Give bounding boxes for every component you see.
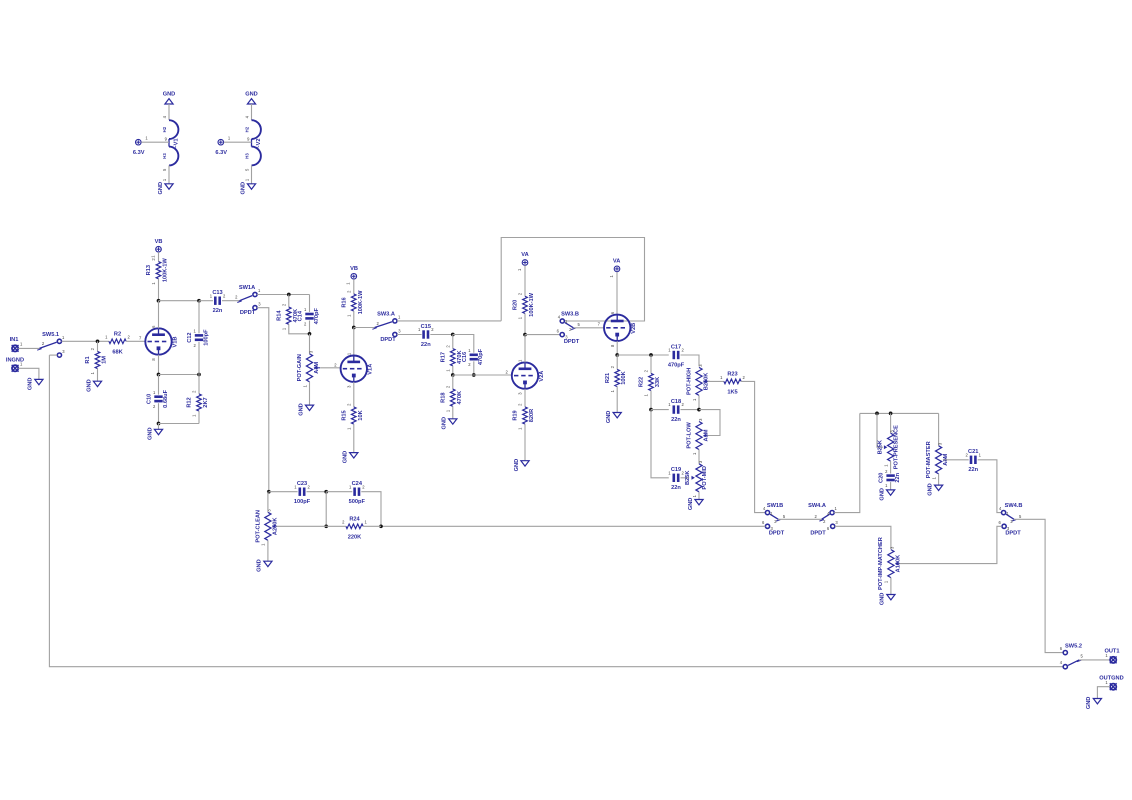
triode V1B (139, 325, 178, 361)
svg-text:22n: 22n (213, 308, 223, 314)
capacitor C13 (210, 290, 226, 314)
wire node to C13 (199, 300, 213, 302)
svg-text:IN1: IN1 (10, 337, 19, 343)
capacitor C12 (187, 329, 209, 348)
svg-text:470pF: 470pF (314, 307, 320, 324)
connector IN1 (10, 337, 23, 352)
wire R2 to V1B grid (126, 340, 145, 342)
svg-text:10K: 10K (358, 409, 364, 420)
wire V2A plate (524, 335, 526, 363)
wire presence pot top (890, 413, 892, 433)
svg-text:GND: GND (927, 483, 933, 496)
svg-text:220K: 220K (348, 535, 362, 541)
wire plate node to SW3.A (354, 327, 375, 329)
ground below V2 (240, 182, 255, 195)
resistor R13 (146, 258, 168, 285)
wire C15 to grid node (430, 334, 453, 336)
switch SW1B (762, 503, 786, 536)
resistor R12 (187, 390, 209, 417)
power symbol VB at R13 (150, 239, 162, 258)
wire POT-CLEAN top (267, 492, 269, 513)
svg-text:R16: R16 (341, 297, 347, 307)
svg-text:100K: 100K (621, 370, 627, 384)
svg-text:R18: R18 (440, 393, 446, 403)
wire SW3.B common to V2B grid (573, 327, 604, 329)
wire R16 to plate node (353, 311, 355, 327)
svg-text:R12: R12 (187, 397, 193, 407)
svg-text:R1: R1 (85, 356, 91, 363)
resistor R24 (342, 517, 367, 541)
wire clean channel long wire (381, 525, 765, 527)
capacitor C17 (668, 344, 685, 368)
switch SW4.B (999, 503, 1023, 536)
svg-text:DPDT: DPDT (769, 531, 785, 537)
ground at OUTGND (1086, 697, 1101, 710)
junction gain pot top node (308, 332, 312, 336)
wire C24 right (361, 492, 381, 527)
wire VB to R16 (353, 279, 355, 294)
wire plate node to C12 (159, 300, 200, 302)
wire R13 to plate node (158, 279, 160, 301)
potentiometer POT-GAIN (297, 350, 320, 387)
svg-text:SW3.B: SW3.B (561, 312, 579, 318)
wire C12 column (198, 301, 200, 334)
junction R17 top node (451, 333, 455, 337)
svg-text:22n: 22n (421, 342, 431, 348)
wire C24 wires (326, 491, 352, 493)
svg-text:GND: GND (514, 459, 520, 472)
switch SW4.A (808, 503, 838, 536)
ground at POT-MASTER (927, 483, 942, 496)
svg-text:C23: C23 (297, 481, 307, 487)
wire 6.3V to V2 (224, 141, 252, 143)
svg-text:470K: 470K (457, 390, 463, 404)
wire OUTGND to ground (1097, 687, 1110, 699)
svg-text:C24: C24 (352, 481, 363, 487)
wire POT-HIGH wiper to R23 (708, 380, 724, 382)
svg-text:R19: R19 (513, 410, 519, 420)
svg-text:V1A: V1A (368, 364, 374, 375)
ground below V1 (158, 182, 173, 195)
svg-text:1K5: 1K5 (727, 390, 737, 396)
wire VB to R13 (158, 252, 160, 262)
junction bypass gnd node (157, 422, 161, 426)
wire SW5.1 pin1 to R2 (62, 340, 109, 342)
svg-text:100K-1W: 100K-1W (358, 290, 364, 315)
svg-text:GND: GND (245, 91, 258, 97)
wiper arrow POT-PRESENCE (884, 445, 887, 449)
potentiometer POT-HIGH (686, 364, 709, 401)
svg-text:A1M: A1M (314, 362, 320, 374)
svg-text:A1M: A1M (704, 429, 710, 441)
junction R14 top node (287, 293, 291, 297)
junction cathode node right (197, 373, 201, 377)
svg-text:DPDT: DPDT (380, 337, 396, 343)
resistor R20 (513, 292, 535, 319)
wire V2A cathode (524, 389, 526, 407)
svg-text:POT-GAIN: POT-GAIN (297, 354, 303, 381)
ground at POT-GAIN (298, 403, 313, 416)
potentiometer POT-PRESENCE (877, 425, 899, 469)
wire 6.3V to V1 (141, 141, 169, 143)
wire C17 to POT-HIGH (681, 355, 700, 366)
junction C18 left node (649, 408, 653, 412)
svg-text:C21: C21 (968, 449, 978, 455)
wire R24 wires right (363, 525, 381, 527)
wire SW5.2 to OUT1 (1079, 659, 1110, 661)
power symbol 6.3V for V2 (215, 139, 227, 156)
junction V2A grid node left (451, 373, 455, 377)
wire R18 bottom (452, 406, 454, 418)
wire SW4.A pin3 to POT-IMP (835, 526, 891, 549)
power symbol VA at V2B (609, 259, 621, 278)
wire C14 bottom (309, 321, 311, 334)
resistor R15 (341, 403, 363, 430)
svg-text:R2: R2 (114, 332, 121, 338)
wire C19 column (651, 410, 669, 478)
junction C23-C24 node (324, 490, 328, 494)
wire R18 top (452, 375, 454, 389)
svg-text:SW5.1: SW5.1 (42, 332, 59, 338)
svg-text:B25K: B25K (685, 470, 691, 485)
svg-text:~V1: ~V1 (174, 138, 180, 148)
resistor R23 (720, 372, 745, 396)
svg-text:H3: H3 (245, 153, 250, 159)
svg-text:DPDT: DPDT (810, 531, 826, 537)
wire R12 bottom (198, 411, 200, 423)
svg-text:C10: C10 (147, 394, 153, 404)
junction C12 top node (197, 299, 201, 303)
svg-text:C17: C17 (671, 344, 681, 350)
resistor R22 (639, 369, 661, 396)
wire R17 node to C16 (453, 335, 474, 353)
junction R22 top node (649, 353, 653, 357)
svg-text:VB: VB (155, 239, 163, 245)
svg-text:VB: VB (350, 266, 358, 272)
svg-text:GND: GND (163, 91, 176, 97)
wire SW4.A pin1 up (834, 413, 860, 512)
svg-text:0.68uF: 0.68uF (163, 389, 169, 407)
junction cathode node left (157, 373, 161, 377)
resistor R16 (341, 290, 363, 317)
svg-text:GND: GND (257, 559, 263, 572)
ground at R19 (514, 459, 529, 472)
svg-text:100pF: 100pF (203, 329, 209, 346)
svg-text:~V2: ~V2 (256, 138, 262, 148)
wire presence pot to C20 (890, 461, 892, 473)
junction V1B plate node (157, 299, 161, 303)
wire VA to V2B plate (616, 272, 618, 315)
wire R21 top (616, 355, 618, 369)
junction clean top node (267, 490, 271, 494)
svg-text:C12: C12 (187, 332, 193, 342)
ground at R1 (86, 379, 101, 392)
junction R1 tap (96, 339, 100, 343)
connector OUT1 (1104, 649, 1119, 664)
svg-text:C16: C16 (462, 352, 468, 362)
capacitor C15 (418, 324, 434, 348)
svg-text:470pF: 470pF (478, 348, 484, 365)
wire R14 column top (288, 295, 290, 308)
svg-text:H2: H2 (245, 126, 250, 132)
svg-text:R20: R20 (513, 300, 519, 310)
resistor R2 (105, 332, 130, 356)
ground at INGND (28, 378, 43, 391)
svg-text:R17: R17 (440, 352, 446, 362)
wire C20 to gnd (890, 482, 892, 490)
svg-text:R13: R13 (146, 265, 152, 275)
switch SW5.1 (37, 332, 65, 357)
wire SW3.A pin3 to C15 (397, 334, 422, 336)
wire POT-LOW wiper loop (699, 410, 720, 436)
power symbol VA at R20 (517, 252, 529, 271)
svg-text:SW5.2: SW5.2 (1065, 644, 1082, 650)
svg-text:V1B: V1B (172, 337, 178, 348)
junction presence top node (889, 412, 893, 416)
wire V2B cathode (616, 341, 618, 355)
wire R17 bottom (452, 366, 454, 375)
svg-text:GND: GND (442, 417, 448, 430)
svg-text:OUTGND: OUTGND (1099, 675, 1123, 681)
ground at R15 (343, 451, 358, 464)
svg-text:SW4.B: SW4.B (1005, 503, 1023, 509)
junction R24 left node (324, 524, 328, 528)
svg-text:33K: 33K (655, 376, 661, 387)
wire R22 bottom (650, 391, 652, 410)
junction V2A plate node (523, 333, 527, 337)
svg-text:820R: 820R (529, 409, 535, 423)
svg-text:VA: VA (613, 259, 620, 265)
svg-text:C20: C20 (879, 473, 885, 483)
svg-text:470pF: 470pF (668, 362, 685, 368)
svg-text:68K: 68K (112, 350, 123, 356)
svg-text:VA: VA (521, 252, 528, 258)
junction R24 right node (379, 524, 383, 528)
svg-text:R24: R24 (349, 517, 360, 523)
svg-text:H2: H2 (162, 126, 167, 132)
wire POT-CLEAN wiper row (277, 525, 327, 527)
svg-text:SW1B: SW1B (767, 503, 783, 509)
wire plate node to SW3.B pin6 (525, 334, 560, 336)
potentiometer POT-LOW (686, 418, 709, 455)
potentiometer POT-MID (685, 460, 708, 497)
resistor R19 (513, 403, 535, 430)
svg-text:GND: GND (879, 488, 885, 501)
triode V2A (505, 359, 544, 395)
wire VA to R20 (524, 265, 526, 296)
potentiometer POT-CLEAN (255, 509, 278, 546)
wire R23 to SW1B (741, 381, 765, 512)
connector INGND (6, 358, 24, 372)
svg-text:POT-MASTER: POT-MASTER (926, 441, 932, 478)
wire master wiper to C21 (943, 459, 969, 461)
junction C18 right node (697, 408, 701, 412)
wire cathode to tone stack (617, 354, 669, 356)
svg-text:22n: 22n (895, 472, 901, 482)
ground at R21 (606, 411, 621, 424)
svg-text:POT-LOW: POT-LOW (686, 422, 692, 449)
svg-text:C19: C19 (671, 467, 681, 473)
svg-text:GND: GND (240, 182, 246, 195)
wire V1 top gnd (168, 104, 170, 120)
wire feedback run SW5.1 to SW5.2 (49, 355, 1063, 667)
wire R20 to plate node (524, 314, 526, 335)
ground at POT-IMP-MATCHER (880, 593, 895, 606)
wire C23 to C24 (307, 491, 327, 493)
capacitor C16 (462, 348, 484, 367)
triode V1A (334, 352, 373, 388)
svg-text:GND: GND (606, 411, 612, 424)
wire C12 bottom (198, 342, 200, 375)
wire SW1B-SW4A common (778, 518, 821, 520)
svg-text:DPDT: DPDT (564, 339, 580, 345)
wire V2 bottom gnd (251, 165, 253, 183)
wire POT-LOW to POT-MID (698, 450, 700, 464)
svg-text:SW3.A: SW3.A (377, 311, 395, 317)
capacitor C14 (298, 307, 320, 326)
junction cathode follower node (615, 353, 619, 357)
svg-text:POT-MID: POT-MID (702, 466, 708, 490)
svg-text:B25K: B25K (877, 439, 883, 454)
wire R1 top (97, 341, 99, 351)
wire clean row left (269, 491, 298, 493)
capacitor C20 (879, 469, 901, 488)
capacitor C23 (294, 481, 311, 505)
svg-text:6.3V: 6.3V (133, 150, 145, 156)
switch SW3.B (557, 312, 581, 345)
capacitor C19 (668, 467, 684, 491)
wire POT-MID bottom (698, 492, 700, 500)
svg-text:A100K: A100K (896, 554, 902, 572)
wire presence wiper drop (877, 413, 883, 447)
svg-text:V2A: V2A (539, 371, 545, 382)
junction presence wiper node (875, 412, 879, 416)
svg-text:GND: GND (343, 451, 349, 464)
wire SW5.1 pin3 stub (49, 354, 57, 356)
wire C13 to SW1A (222, 300, 240, 302)
svg-text:R15: R15 (341, 410, 347, 420)
wire INGND to ground (18, 368, 39, 379)
wire grid node to V2A (453, 374, 512, 376)
wire SW1A pin1 out (257, 294, 309, 296)
svg-text:GND: GND (28, 378, 34, 391)
wire V1B cathode (158, 355, 160, 375)
wire SW4.B common down (1014, 519, 1063, 652)
svg-text:GND: GND (86, 379, 92, 392)
wire C10 top (158, 375, 160, 395)
svg-text:SW4.A: SW4.A (808, 503, 826, 509)
resistor R21 (605, 365, 627, 392)
wire SW3.A pin1 to loop (397, 320, 501, 322)
svg-text:SW1A: SW1A (239, 285, 255, 291)
switch SW1A (235, 285, 261, 316)
wire C21 to SW4.B (978, 460, 1002, 513)
svg-text:POT-HIGH: POT-HIGH (686, 368, 692, 395)
svg-text:GND: GND (158, 182, 164, 195)
svg-text:C13: C13 (212, 290, 222, 296)
wire V2 top gnd (251, 104, 253, 120)
wire POT-HIGH bottom (698, 395, 700, 409)
svg-text:GND: GND (298, 403, 304, 416)
svg-text:H3: H3 (162, 153, 167, 159)
connector OUTGND (1099, 675, 1123, 690)
svg-text:DPDT: DPDT (240, 310, 256, 316)
wire POT-GAIN wiper to V1A grid (320, 367, 341, 369)
svg-text:500pF: 500pF (349, 499, 366, 505)
ground at R18 (442, 417, 457, 430)
svg-text:22n: 22n (968, 467, 978, 473)
wire V1A plate (353, 328, 355, 356)
wire POT-IMP bottom (890, 578, 892, 595)
junction V2A grid node right (472, 373, 476, 377)
svg-text:6.3V: 6.3V (215, 150, 227, 156)
svg-text:2K7: 2K7 (203, 397, 209, 407)
wire R19 bottom (524, 424, 526, 460)
svg-text:C15: C15 (421, 324, 431, 330)
svg-text:C14: C14 (298, 310, 304, 321)
junction V1A plate node (352, 326, 356, 330)
wire master pot bottom (938, 474, 940, 485)
capacitor C10 (147, 389, 169, 409)
svg-text:100K-1W: 100K-1W (529, 292, 535, 317)
ground at POT-MID (688, 498, 703, 511)
svg-text:R21: R21 (605, 373, 611, 383)
switch SW3.A (372, 311, 401, 343)
wire POT-GAIN bottom (309, 382, 311, 405)
resistor R17 (440, 345, 462, 372)
resistor R18 (440, 385, 462, 412)
wire C10 bottom (158, 403, 160, 423)
triode V2B (598, 311, 637, 347)
capacitor C21 (965, 449, 981, 473)
capacitor C18 (668, 399, 684, 423)
svg-text:1M: 1M (102, 356, 108, 364)
power symbol 6.3V for V1 (133, 139, 145, 156)
potentiometer POT-IMP-MATCHER (878, 537, 902, 590)
wire master top row (860, 412, 939, 414)
resistor R1 (85, 347, 107, 374)
svg-text:POT-CLEAN: POT-CLEAN (255, 510, 261, 543)
svg-text:22n: 22n (671, 417, 681, 423)
svg-text:GND: GND (1086, 697, 1092, 710)
wire SW1A pin3 drop (257, 308, 269, 492)
wire R1 bottom (97, 369, 99, 381)
capacitor C24 (349, 481, 366, 505)
wire R14 column bottom (289, 324, 310, 334)
wire V1B plate (158, 301, 160, 329)
svg-text:R23: R23 (727, 372, 737, 378)
wire R17 wires (452, 335, 454, 349)
potentiometer POT-MASTER (926, 441, 949, 479)
svg-text:R22: R22 (639, 377, 645, 387)
switch SW5.2 (1060, 644, 1084, 669)
wire R21 bottom (616, 387, 618, 413)
ground at POT-CLEAN (257, 559, 272, 572)
tube heater V1 (162, 115, 180, 171)
svg-text:100K-1W: 100K-1W (163, 258, 169, 283)
wire C18 row left (651, 409, 669, 411)
tube heater V2 (244, 115, 262, 171)
power symbol VB at R16 (346, 266, 358, 285)
wire R24 wires (326, 525, 346, 527)
wire IN1 to SW5.1 (18, 347, 39, 349)
wire bypass loop (501, 238, 644, 322)
ground above V2 (245, 91, 258, 104)
wire R15 bottom (353, 424, 355, 452)
wire R12 top (198, 375, 200, 394)
svg-text:C18: C18 (671, 399, 681, 405)
ground at V1B cathode network (147, 427, 162, 440)
